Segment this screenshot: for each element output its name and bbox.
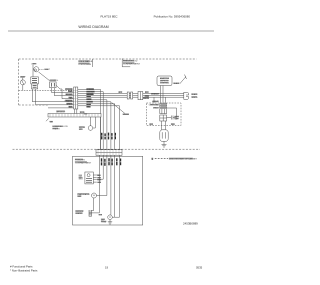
wire compressor to ground xyxy=(163,141,165,144)
cabinet ground diagonal wire xyxy=(112,103,125,114)
ice maker pin labels blob xyxy=(97,175,100,176)
wire cold control right diagonal xyxy=(56,85,73,98)
wire labels mid-run xyxy=(118,92,160,100)
start relay K1 xyxy=(160,104,167,108)
wire drop to ice maker pin2 xyxy=(97,155,103,179)
fresh food label 2 bracket xyxy=(122,59,130,67)
svg-text:0535: 0535 xyxy=(196,266,203,270)
blue blk labels blob xyxy=(80,111,84,112)
inline connector pair P3 xyxy=(127,92,129,99)
wire run J2 long black to machine compartment xyxy=(78,92,184,94)
inline connector P4 xyxy=(138,92,143,100)
machine compartment dashed boundary xyxy=(13,148,201,150)
wire color labels at connector J2 left xyxy=(64,89,73,109)
wire heater to riser xyxy=(92,212,100,214)
freezer harness connector J5 xyxy=(96,150,122,156)
light label blob xyxy=(32,63,36,64)
defrost heater label blob xyxy=(75,210,83,211)
wire door switch lead B xyxy=(36,89,74,105)
relay stack labels blob xyxy=(152,101,159,102)
J2 pins to terminal strip xyxy=(74,109,76,114)
svg-text:YEL: YEL xyxy=(87,107,91,109)
ice mkr label blob xyxy=(79,175,82,176)
wire evap fan bottom lead to heater xyxy=(92,198,94,211)
svg-text:WHITE: WHITE xyxy=(67,103,74,105)
wire run J2 to drop 5 xyxy=(78,104,115,150)
svg-text:WIRING DIAGRAM: WIRING DIAGRAM xyxy=(78,25,108,29)
compressor unit dashed enclosure xyxy=(147,103,182,126)
cabinet ground bar xyxy=(123,113,129,115)
freezer compartment label blob xyxy=(75,159,83,161)
wire drop to defrost thermostat xyxy=(110,155,112,215)
relay and overload labels xyxy=(149,100,160,109)
svg-text:RED: RED xyxy=(69,91,74,93)
def tstat label blob xyxy=(101,219,105,220)
wire run J2 to drop 3 xyxy=(78,100,107,150)
wire lamp lead down xyxy=(22,85,24,90)
fresh food compartment label 2 xyxy=(123,61,141,66)
adc inner text blob xyxy=(160,78,169,79)
wire run J2 to drop 2 xyxy=(78,92,103,150)
lamp label blob xyxy=(20,76,25,77)
upper htr label blob xyxy=(79,126,84,127)
vertical wire labels below freezer connector xyxy=(101,158,121,166)
wire overload to compressor pins xyxy=(160,121,162,130)
ground symbol compressor xyxy=(162,144,167,146)
cold control CC1 xyxy=(50,82,57,88)
svg-text:2453B0889: 2453B0889 xyxy=(183,221,198,225)
wire run J2 long orange xyxy=(78,96,184,98)
power cord plug P1 xyxy=(184,92,189,99)
fresh food label leader xyxy=(92,59,94,67)
fresh food compartment label xyxy=(79,60,93,66)
ice maker pin labels xyxy=(97,175,102,184)
wire dashed run to connector J2 pin1 xyxy=(19,89,74,91)
wire color label blobs at connector J2 left xyxy=(65,88,72,107)
tan wire tick below strip xyxy=(46,118,49,121)
wire drop to evap fan xyxy=(97,155,107,195)
fresh food lamp stem xyxy=(22,78,24,80)
lower mullion heater label blob xyxy=(52,126,62,127)
door switch S1 lower body xyxy=(32,84,38,89)
fresh food compartment dashed left border xyxy=(18,59,20,105)
svg-text:ORANGE: ORANGE xyxy=(64,99,73,102)
connector J2 (fresh food harness) xyxy=(74,87,78,114)
wire cold control lead B xyxy=(54,88,73,96)
label emphasis blobs (match target smudge darkness) xyxy=(20,60,197,222)
heater blk label blob xyxy=(99,214,102,215)
tan label blob xyxy=(49,121,52,122)
fresh food lamp xyxy=(20,80,25,85)
svg-text:DISPENSER: DISPENSER xyxy=(79,64,92,66)
wire color label blobs at connector J2 right xyxy=(86,88,94,107)
header rule xyxy=(8,30,214,32)
wire thermostat to ground xyxy=(109,220,111,222)
wire drops into unit box xyxy=(153,97,155,103)
air damper circle component xyxy=(88,117,100,150)
defrost heater R1 xyxy=(89,210,99,217)
freezer light L1 stem wire xyxy=(32,65,34,77)
svg-text:TAN: TAN xyxy=(69,96,73,99)
wire drop deep right xyxy=(115,155,120,217)
door switch S1 upper body xyxy=(31,77,39,84)
wire from light to cold control (diagonal) xyxy=(39,72,50,81)
adaptive defrost control U1 xyxy=(157,75,187,96)
wire drop to ice maker pin1 xyxy=(97,155,100,175)
compressor M1 xyxy=(160,130,168,147)
fresh food label 1 blob xyxy=(78,60,89,62)
wire door switch lead A xyxy=(32,89,73,102)
relay lower section xyxy=(160,115,167,121)
freezer wire drops below connector xyxy=(97,155,120,217)
run capacitor C1 xyxy=(170,116,172,120)
blk red labels blob xyxy=(149,123,153,124)
overload protector OL1 xyxy=(160,109,167,114)
wire strip to freezer connector xyxy=(99,117,101,150)
air duct label blob xyxy=(56,110,65,112)
svg-text:MKR: MKR xyxy=(79,179,84,181)
wire ADC lead 1 xyxy=(160,86,162,96)
adc black label blob xyxy=(173,83,179,84)
wire relay to capacitor xyxy=(167,117,172,119)
mid-run labels blob xyxy=(119,91,123,92)
wire ADC lead 2 xyxy=(162,86,164,94)
freezer compartment box xyxy=(73,156,143,225)
freezer light L1 bulb xyxy=(34,67,39,72)
note legend text blob xyxy=(169,158,193,160)
ice maker IM1 xyxy=(85,172,97,184)
ADC pointer leader xyxy=(180,77,186,84)
control label blob xyxy=(50,80,56,81)
svg-text:BROWN: BROWN xyxy=(65,94,73,96)
svg-text:Publication No. 5995436080: Publication No. 5995436080 xyxy=(154,15,191,19)
fresh food label 2 blob xyxy=(123,60,134,62)
light switch dashed lead xyxy=(39,68,44,70)
wire pin7 run xyxy=(48,107,74,109)
fresh food compartment dashed bottom-left border xyxy=(19,104,48,106)
ice maker pins xyxy=(93,174,97,176)
evaporator fan motor M2 xyxy=(92,193,97,211)
run cap label blob xyxy=(174,116,179,117)
svg-text:19: 19 xyxy=(105,266,109,270)
wire run J2 to drop 4 xyxy=(78,102,111,150)
svg-text:* Non-Illustrated Parts: * Non-Illustrated Parts xyxy=(10,269,38,273)
wire drop 6 xyxy=(78,106,120,150)
defrost thermostat T1 xyxy=(108,215,113,224)
wire run J2 long to plug xyxy=(78,94,184,96)
svg-text:PLHT19 8EC: PLHT19 8EC xyxy=(100,15,117,19)
vertical wire labels above freezer connector xyxy=(101,133,116,140)
wire run J2 to drop 1 xyxy=(78,89,101,149)
evap fan label blob xyxy=(77,193,89,194)
ground symbol freezer xyxy=(108,221,112,223)
fresh food compartment dashed top border xyxy=(19,58,197,60)
wire color labels at connector J2 right xyxy=(87,89,96,108)
light switch label blob xyxy=(44,69,48,70)
wire cold control lead A xyxy=(52,88,74,93)
wire drop to heater junction xyxy=(112,155,114,217)
plug labels blob xyxy=(191,93,197,94)
